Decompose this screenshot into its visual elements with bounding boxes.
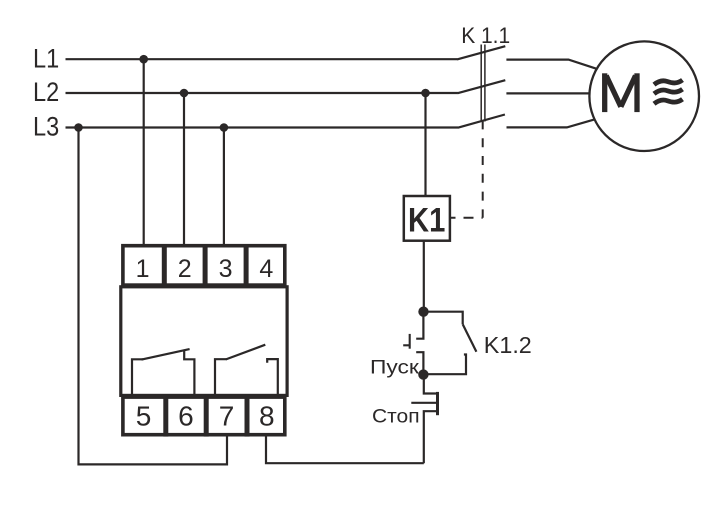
motor circle [589,41,699,151]
svg-text:Стоп: Стоп [372,405,420,427]
svg-text:8: 8 [259,401,275,432]
pushbutton Pusk actuator [403,334,410,349]
junction L2 coil feed [421,89,430,98]
contactor K1.1 blade L1 [457,46,505,59]
terminal dividers 1-4 [164,244,246,287]
svg-text:4: 4 [259,255,273,283]
wire L3 to terminal 7 left loop [79,128,228,465]
svg-text:Пуск: Пуск [370,356,419,378]
svg-text:6: 6 [178,401,194,432]
wire L2 [66,92,458,94]
wire L2 to terminal 2 [183,93,185,246]
svg-text:3: 3 [219,255,233,283]
wire K1.1 to motor phase 2 [506,92,589,94]
contactor K1.1 linkage bar [481,45,485,122]
junction L1 [139,55,148,64]
svg-text:L3: L3 [33,112,59,142]
svg-text:1: 1 [136,255,150,283]
dashed link K1.1 to K1 coil [450,120,483,217]
contact K1.2 lower pole [424,355,467,375]
svg-text:K1.2: K1.2 [484,332,532,358]
junction L2 [180,89,189,98]
pushbutton Stop upper terminal [424,375,438,394]
motor letter M [605,73,637,112]
wire K1 to junction A [423,241,425,312]
K1 coil box [404,196,450,241]
svg-text:K 1.1: K 1.1 [461,23,510,48]
pushbutton Stop bar [436,392,439,415]
wire L3 to terminal 3 [223,128,225,247]
pushbutton Stop stem [411,402,437,404]
wire L3 [66,126,459,128]
junction L3 right [220,123,229,132]
relay internal contact 5-6 [132,349,194,396]
svg-text:5: 5 [136,401,152,432]
junction B [418,369,428,379]
junction A [418,307,428,317]
contactor K1.1 blade L3 [458,115,505,128]
wire Stop to terminal 8 [266,434,424,463]
svg-text:L2: L2 [33,77,59,107]
pushbutton Stop lower terminal [424,411,438,463]
wire L1 to terminal 1 [143,59,145,246]
wire K1.1 to motor phase 1 [506,60,596,69]
svg-text:7: 7 [219,401,235,432]
wire junction A to contact K1.2 [424,312,463,325]
wire K1.1 to motor phase 3 [507,119,595,127]
svg-text:L1: L1 [33,43,59,73]
svg-text:2: 2 [178,255,192,283]
relay module body [121,287,287,396]
pushbutton Pusk lower terminal [416,352,423,374]
terminal row 1-4 box [123,246,285,285]
contact K1.2 blade [463,324,477,351]
wire L1 [66,58,458,60]
terminal dividers 5-8 [166,395,247,436]
pushbutton Pusk upper terminal [416,312,423,339]
relay internal contact 7-8 [215,345,278,396]
contactor K1.1 blade L2 [458,80,506,93]
junction L3 left [74,123,83,132]
terminal row 5-8 box [123,397,285,435]
motor wave symbol [654,80,683,104]
svg-text:K1: K1 [408,201,445,239]
wire L2 to K1 coil [424,93,426,197]
